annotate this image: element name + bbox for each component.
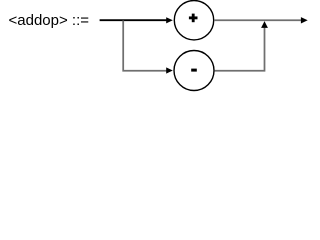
svg-text:<addop> ::=: <addop> ::= bbox=[9, 12, 90, 29]
node + circle bbox=[174, 1, 213, 40]
arrowhead into + bbox=[166, 17, 173, 23]
wire branch down and to - (gray) bbox=[123, 21, 166, 71]
arrowhead final right bbox=[301, 17, 308, 23]
wire exit from + to right (gray) bbox=[214, 19, 302, 21]
arrowhead up join bbox=[261, 21, 268, 28]
wire from - up to join (gray) bbox=[215, 28, 265, 71]
node - circle bbox=[174, 51, 214, 91]
plus glyph bbox=[189, 14, 198, 23]
arrowhead into - bbox=[166, 67, 173, 73]
wire entry line (black) bbox=[100, 19, 167, 21]
minus glyph bbox=[191, 69, 197, 72]
